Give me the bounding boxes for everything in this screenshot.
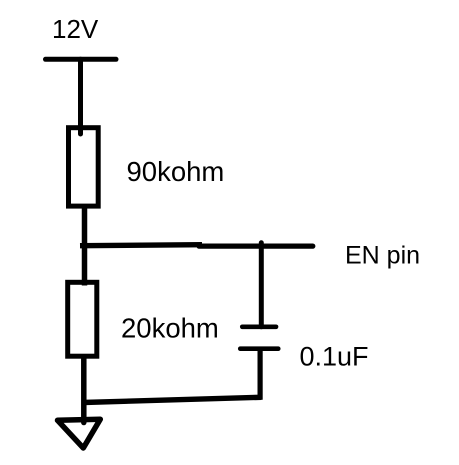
value label 90kohm <box>127 156 225 187</box>
wire node EN horizontal left segment <box>80 245 202 246</box>
wire node EN horizontal right segment <box>199 244 313 249</box>
wire from node EN to capacitor C1 <box>259 243 264 327</box>
net label 12V <box>52 14 99 44</box>
svg-text:0.1uF: 0.1uF <box>300 342 369 372</box>
power rail 12V bar <box>46 57 117 62</box>
pin label EN pin <box>345 242 420 270</box>
wire from R1 to node EN <box>82 206 88 286</box>
wire from 12V rail to R1 <box>78 59 83 134</box>
wire from R2 to ground <box>81 358 87 423</box>
wire from C1 to bottom rail <box>258 349 263 400</box>
svg-text:20kohm: 20kohm <box>121 313 219 344</box>
value label 20kohm <box>121 313 219 344</box>
capacitor C1 0.1uF <box>240 327 278 349</box>
svg-text:12V: 12V <box>52 14 99 44</box>
resistor R1 90kohm <box>69 128 99 206</box>
svg-text:EN pin: EN pin <box>345 242 420 270</box>
wire bottom rail to ground <box>83 397 261 402</box>
ground <box>58 419 101 448</box>
resistor R2 20kohm <box>68 282 97 356</box>
value label 0.1uF <box>300 342 369 372</box>
svg-text:90kohm: 90kohm <box>127 156 225 187</box>
